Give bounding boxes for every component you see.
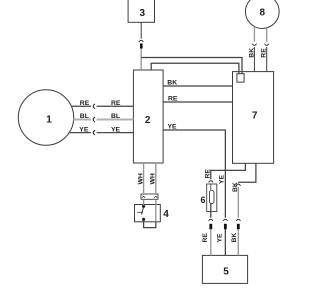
wire RE: connector to box 5 (210, 229, 212, 255)
connector pin blob on BK wire (237, 224, 240, 230)
svg-text:RE: RE (80, 100, 90, 107)
wire WH left: connector block to switch (143, 199, 145, 205)
wire RE: connector to box 7 top (266, 47, 268, 72)
svg-text:YE: YE (79, 126, 89, 133)
svg-text:YE: YE (111, 126, 121, 133)
connector on YE wire (93, 130, 95, 135)
wire YE: box 2 right, horizontal run (163, 129, 226, 131)
svg-text:5: 5 (223, 267, 229, 278)
svg-text:4: 4 (163, 209, 169, 220)
wire RE: box 7 bottom, L-run to fuse 6 (211, 163, 246, 179)
wire YE: connector to box 2 (97, 132, 134, 134)
wire bus: box 2 top to terminal square on box 7 (151, 63, 239, 73)
component 7: box at right (233, 72, 274, 164)
wire RE: into fuse body (210, 184, 212, 191)
svg-text:2: 2 (145, 115, 151, 126)
component 5: box at bottom (202, 255, 247, 283)
wire from connector down to box 2 top (140, 49, 142, 71)
connector chevron at BK corner (236, 184, 240, 186)
terminal square pin on box 7 (237, 74, 244, 82)
switch contact symbol inside component 4 (137, 205, 144, 220)
component 8: circle at top right (245, 0, 279, 28)
svg-text:RE: RE (261, 48, 268, 58)
svg-text:YE: YE (216, 233, 223, 243)
svg-text:RE: RE (202, 233, 209, 243)
wire WH left: box 2 bottom to connector block (143, 163, 145, 194)
svg-text:YE: YE (168, 124, 178, 131)
svg-text:BK: BK (231, 233, 238, 243)
wire BK: circle 8 to connector (253, 27, 255, 42)
svg-text:BK: BK (232, 182, 239, 192)
connector on BL wire (93, 117, 95, 122)
connector chevron on box 3 wire (139, 40, 143, 42)
wire BK: vertical run down (237, 187, 239, 218)
svg-text:BL: BL (80, 113, 89, 120)
wire from box 3 down to connector (140, 22, 142, 39)
svg-text:RE: RE (111, 100, 121, 107)
wire RE: circle 1 to connector (72, 105, 91, 107)
component 2: control unit box (133, 70, 163, 163)
svg-text:7: 7 (252, 110, 258, 121)
wire bus: junction on box 3 wire to terminal square on box 7 (141, 58, 242, 74)
wire WH right: box 2 bottom to connector block (155, 163, 157, 194)
component 1: motor/generator circle (18, 90, 73, 145)
svg-text:RE: RE (168, 96, 178, 103)
connector chevron on RE wire above box 5 (209, 219, 213, 221)
connector chevron on BK wire above box 5 (236, 219, 240, 221)
wire YE: connector to box 5 (224, 229, 226, 255)
svg-text:RE: RE (204, 169, 211, 179)
wire RE: circle 8 to connector (266, 28, 268, 42)
svg-text:BL: BL (111, 113, 120, 120)
svg-text:YE: YE (219, 174, 226, 184)
connector cup on BK wire (252, 44, 256, 46)
svg-text:BK: BK (167, 80, 177, 87)
connector chevron above fuse (209, 181, 213, 183)
wire RE: connector to box 2 (97, 105, 134, 107)
svg-text:BK: BK (248, 48, 255, 58)
component 3: box at top (128, 0, 154, 22)
wire BK: box 7 bottom L-run (238, 163, 256, 182)
wire WH right: connector block through box 4 (155, 199, 157, 222)
wire BK: connector to box 7 top (253, 47, 255, 72)
2-pin connector block above component 4 (141, 194, 158, 199)
svg-text:WH: WH (138, 173, 145, 184)
wire BL: connector to box 2 (97, 119, 134, 121)
component 4: switch housing box (135, 205, 170, 222)
wire YE: vertical run down (224, 130, 226, 218)
connector pin blob on box 3 wire (140, 44, 143, 49)
wire BK: box 2 to box 7 (163, 85, 232, 87)
connector pin blob on RE wire (209, 224, 212, 230)
svg-text:6: 6 (201, 195, 206, 205)
connector pin blob on YE wire (224, 224, 227, 230)
svg-text:WH: WH (150, 173, 157, 184)
wire YE: circle 1 to connector (69, 132, 92, 134)
component 6: fuse (201, 184, 217, 212)
svg-text:1: 1 (46, 115, 52, 126)
wire BL: circle 1 to connector (73, 119, 91, 121)
svg-text:8: 8 (260, 8, 266, 19)
wire RE: fuse to connector (210, 204, 212, 218)
wire RE: box 2 to box 7 (163, 101, 232, 103)
wire loop below box 4 joining switch output to right wire (144, 221, 156, 228)
svg-text:3: 3 (140, 8, 146, 19)
connector cup on RE wire (265, 44, 269, 46)
connector on RE wire (93, 104, 95, 109)
wire BK: connector to box 5 (237, 229, 239, 255)
connector chevron on YE wire (223, 219, 227, 221)
